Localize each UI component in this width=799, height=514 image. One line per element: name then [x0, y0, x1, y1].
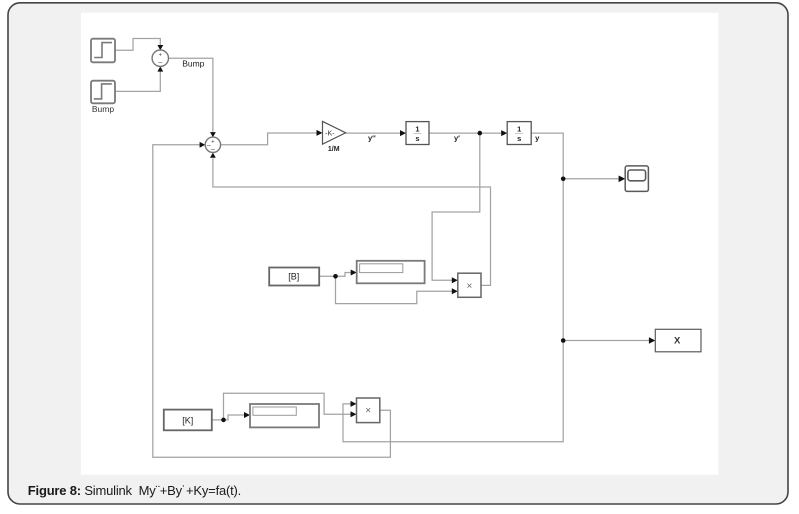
svg-text:×: ×: [365, 406, 371, 417]
svg-text:+: +: [211, 139, 215, 145]
svg-text:[K]: [K]: [182, 415, 193, 425]
svg-text:–: –: [158, 60, 162, 67]
svg-text:Bump: Bump: [92, 104, 114, 114]
svg-text:s: s: [415, 134, 419, 143]
svg-text:×: ×: [466, 281, 472, 292]
svg-text:1: 1: [517, 125, 521, 134]
svg-text:y″: y″: [368, 134, 376, 143]
svg-text:y′: y′: [454, 134, 460, 143]
svg-text:1: 1: [415, 125, 419, 134]
svg-text:X: X: [674, 336, 681, 347]
svg-text:–: –: [211, 146, 215, 153]
svg-text:[B]: [B]: [288, 272, 299, 282]
svg-text:1/M: 1/M: [328, 146, 340, 153]
svg-text:+: +: [159, 53, 163, 59]
svg-text:-K-: -K-: [325, 130, 335, 137]
svg-text:Figure 8: Simulink My¨+By˙+Ky: Figure 8: Simulink My¨+By˙+Ky=fa(t).: [28, 483, 241, 498]
svg-text:Bump: Bump: [182, 58, 204, 68]
svg-text:s: s: [517, 134, 521, 143]
